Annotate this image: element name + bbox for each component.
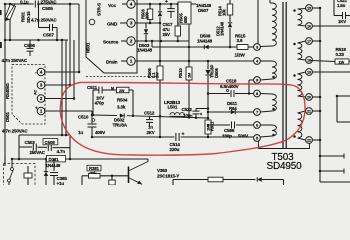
svg-text:R501: R501 xyxy=(21,11,26,22)
svg-text:470p: 470p xyxy=(95,101,105,106)
diode D508 1N4148 xyxy=(204,45,208,49)
transformer left pin 7 xyxy=(254,109,261,116)
wire pin19 output xyxy=(312,71,350,73)
resistor R505 680 xyxy=(178,2,191,24)
bridge pin 2 xyxy=(37,95,45,103)
svg-text:C503: C503 xyxy=(25,140,36,145)
capacitor C518 6.8n 400V xyxy=(226,89,228,91)
switch contacts xyxy=(11,168,14,171)
svg-text:3.3k: 3.3k xyxy=(117,105,126,110)
svg-text:C505: C505 xyxy=(42,6,53,12)
svg-text:RS405G: RS405G xyxy=(5,82,10,99)
transformer right pin 16 xyxy=(306,23,313,30)
left edge cut-off marks xyxy=(0,10,2,48)
diode D385 xyxy=(257,177,262,182)
wire pin9 jog xyxy=(249,79,254,81)
svg-text:C518: C518 xyxy=(226,79,237,84)
svg-text:R64: R64 xyxy=(229,106,237,111)
svg-text:+: + xyxy=(182,132,185,138)
svg-text:22: 22 xyxy=(307,138,311,142)
wire mid-left horizontal xyxy=(5,39,68,41)
capacitor C521 1.5n 1KV xyxy=(333,0,335,16)
wire emitter bottom rail xyxy=(172,180,174,186)
wire output branch 2 xyxy=(320,170,344,172)
svg-text:2W: 2W xyxy=(119,89,125,93)
svg-text:15: 15 xyxy=(307,6,311,10)
capacitor C511 470p 1KV xyxy=(98,87,100,94)
transformer left pin 5 xyxy=(254,135,261,142)
svg-text:680: 680 xyxy=(183,16,188,23)
resistor R518 0.33 1W xyxy=(311,61,335,62)
transformer right pin 15 xyxy=(306,5,313,12)
wire secondary bus xyxy=(319,8,321,182)
svg-text:330p: 330p xyxy=(222,134,232,139)
capacitor C507 4.7n xyxy=(38,4,40,28)
transformer left pin 4 xyxy=(254,58,261,65)
svg-text:C512: C512 xyxy=(144,111,155,116)
capacitor C384 xyxy=(111,176,113,180)
transformer T503 core xyxy=(282,2,284,148)
svg-text:1N4148: 1N4148 xyxy=(197,38,213,43)
bridge pin 3 xyxy=(37,81,45,89)
svg-text:1KV: 1KV xyxy=(338,19,346,24)
svg-text:C507: C507 xyxy=(43,33,54,39)
svg-text:C522: C522 xyxy=(182,107,193,112)
svg-text:AC: AC xyxy=(34,89,38,95)
wire AC feeder 3 xyxy=(69,4,71,85)
varistor R501 SD-15 xyxy=(5,4,16,19)
wire pin16 output xyxy=(312,25,350,27)
capacitor C517 47u 25V xyxy=(170,4,172,9)
diode D512 1N4148 xyxy=(228,23,232,27)
resistor R510 1M xyxy=(188,61,190,67)
svg-text:10k: 10k xyxy=(222,9,227,16)
red hand-drawn annotation loop xyxy=(60,82,305,155)
wire clamp to pin3 line xyxy=(188,41,190,61)
svg-text:4.7n: 4.7n xyxy=(57,149,66,154)
switch dashed box xyxy=(4,164,36,186)
wire pin6 row xyxy=(208,124,230,126)
wire X-cap bottom rail xyxy=(12,158,148,160)
diode D506 TRU3P xyxy=(205,70,210,75)
svg-text:4.7n 250VAC: 4.7n 250VAC xyxy=(2,129,28,134)
svg-text:1N4148: 1N4148 xyxy=(220,21,225,36)
wire pin8 row xyxy=(208,93,230,95)
transistor V383 2SC1815-Y xyxy=(128,167,130,184)
wire Source rail xyxy=(135,40,189,42)
capacitor C503 250VAC xyxy=(19,146,32,148)
wire Vcc rail xyxy=(135,3,196,5)
capacitor C508 4.7n xyxy=(47,144,49,151)
svg-text:0.33: 0.33 xyxy=(336,52,345,57)
wire top AC line xyxy=(5,3,34,5)
transformer right pin 18 xyxy=(306,57,313,64)
transformer right pin 21 xyxy=(306,108,313,115)
wire AC feeder 1 xyxy=(61,40,63,135)
IC dashed boundary below xyxy=(86,76,160,78)
capacitor C365 xyxy=(53,159,55,171)
svg-text:1W: 1W xyxy=(339,60,345,65)
svg-text:C510: C510 xyxy=(78,115,89,120)
wire pin17 stub xyxy=(312,40,320,42)
svg-text:+: + xyxy=(165,0,168,5)
transformer left pin 3 xyxy=(254,44,261,51)
wire output branch 1 xyxy=(320,155,344,157)
primary winding top xyxy=(257,0,259,44)
svg-text:1N4148: 1N4148 xyxy=(137,48,153,53)
relay coil xyxy=(24,173,32,178)
svg-text:+1u: +1u xyxy=(57,181,65,185)
primary winding 4-9 xyxy=(260,60,272,62)
wire pin7 row xyxy=(208,111,254,113)
svg-text:SD4950: SD4950 xyxy=(266,161,302,172)
svg-text:20: 20 xyxy=(307,95,311,99)
svg-text:Vcc: Vcc xyxy=(108,3,117,9)
diode D361 1N4148 xyxy=(45,159,47,172)
wire bridge pin4 to feeder xyxy=(45,71,79,73)
transformer right pin 19 xyxy=(306,69,313,76)
wire pin15 stub xyxy=(312,7,320,9)
secondary winding 17-18 xyxy=(298,41,306,43)
svg-text:400V: 400V xyxy=(95,130,106,135)
svg-text:M: M xyxy=(111,87,114,91)
transformer left pin 6 xyxy=(254,122,261,129)
wire left vertical rail xyxy=(4,4,6,166)
svg-text:D501: D501 xyxy=(5,111,10,122)
svg-text:1n: 1n xyxy=(148,124,153,129)
svg-text:25V: 25V xyxy=(163,32,171,37)
wire snubber top xyxy=(93,89,99,91)
svg-text:100: 100 xyxy=(145,12,150,19)
capacitor C514 220u xyxy=(175,133,177,141)
svg-text:C566: C566 xyxy=(224,128,235,133)
wire pin21 stub xyxy=(312,110,320,112)
diode D502 TRU3A xyxy=(120,113,124,117)
svg-text:TRU3A: TRU3A xyxy=(113,123,128,128)
transformer left pin 8 xyxy=(254,90,261,97)
svg-text:C511: C511 xyxy=(87,85,98,90)
transformer left pin 9 xyxy=(254,77,261,84)
wire into switch xyxy=(4,157,6,164)
svg-text:C508: C508 xyxy=(45,140,56,145)
diode D511 R64 xyxy=(231,110,235,114)
svg-text:2SC1815-Y: 2SC1815-Y xyxy=(157,174,179,179)
IC N501 STR module body xyxy=(86,0,137,73)
svg-text:21: 21 xyxy=(307,109,311,113)
wire pin22 stub xyxy=(312,139,320,141)
resistor R385 xyxy=(208,177,223,182)
svg-text:D507: D507 xyxy=(198,8,209,13)
svg-text:1M: 1M xyxy=(187,72,192,78)
transformer label bracket xyxy=(259,142,310,149)
svg-text:3.6: 3.6 xyxy=(237,38,243,43)
svg-text:STR-S: STR-S xyxy=(97,3,102,16)
transformer right pin 22 xyxy=(306,137,313,144)
wire bridge pin3 to feeder xyxy=(45,84,70,86)
svg-text:1N4148: 1N4148 xyxy=(46,163,61,168)
svg-text:19: 19 xyxy=(307,70,311,74)
resistor R515 3.6 1/2W xyxy=(237,45,248,50)
wire bridge pin1 (+) output xyxy=(45,110,92,112)
secondary winding 19-20 xyxy=(298,72,306,74)
wire snubber right leg xyxy=(132,90,134,116)
wire branch right C-shape xyxy=(337,95,350,97)
resistor R503 100 xyxy=(149,4,151,9)
svg-text:1u: 1u xyxy=(78,130,83,135)
svg-text:4.7n 250VAC: 4.7n 250VAC xyxy=(2,58,28,63)
svg-text:17: 17 xyxy=(307,39,311,43)
wire pin20 stub xyxy=(312,96,320,98)
svg-text:18: 18 xyxy=(307,58,311,62)
svg-text:4.7n 250VAC: 4.7n 250VAC xyxy=(31,18,57,23)
wire GND rail xyxy=(135,22,160,24)
wire base feed xyxy=(81,176,83,185)
winding 6-5 xyxy=(260,124,272,126)
resistor R506 0.1 2W xyxy=(159,41,161,66)
wire B+ rail xyxy=(92,114,117,117)
diode D503 1N4148 xyxy=(145,23,147,29)
capacitor C566 330p 500V xyxy=(231,122,233,129)
svg-text:1/2W: 1/2W xyxy=(235,53,246,58)
bridge pin 4 xyxy=(37,68,45,76)
zener diode D510 xyxy=(159,4,161,11)
svg-text:N501: N501 xyxy=(86,42,91,53)
wire drain clamp vertical xyxy=(207,61,209,69)
svg-text:L501: L501 xyxy=(168,105,178,110)
wire primary ground bus xyxy=(92,136,175,138)
wire bridge pin2 to feeder xyxy=(45,98,74,100)
transformer right pin 17 xyxy=(306,38,313,45)
winding 8-7 xyxy=(260,93,272,96)
svg-text:R510: R510 xyxy=(178,68,183,78)
svg-text:D506: D506 xyxy=(214,68,219,78)
svg-text:R511: R511 xyxy=(210,121,215,131)
svg-text:Drain: Drain xyxy=(106,59,118,65)
wire AC feeder 4 xyxy=(73,40,75,99)
wire AC feeder 5 xyxy=(78,4,80,72)
svg-text:R504: R504 xyxy=(117,98,128,103)
wire AC feeder 2 xyxy=(65,40,67,135)
resistor R514 10k xyxy=(229,0,231,4)
resistor R511 1M xyxy=(205,120,211,134)
svg-text:GND: GND xyxy=(107,22,118,28)
capacitor C505 0.1u 275VAC xyxy=(34,1,36,8)
svg-text:Source: Source xyxy=(103,39,119,45)
resistor R381 22k xyxy=(87,165,101,171)
wire snubber left leg xyxy=(92,90,94,115)
wire X-cap block frame xyxy=(19,134,70,136)
bridge rectifier D501 RS405G dashed outline xyxy=(12,65,45,125)
svg-text:0.1u: 0.1u xyxy=(20,0,29,4)
transformer right pin 20 xyxy=(306,94,313,101)
secondary winding 21-22 xyxy=(298,111,306,113)
wire Drain to transformer pin4 xyxy=(135,60,254,62)
bridge pin 1 xyxy=(37,107,45,115)
svg-text:0.1: 0.1 xyxy=(151,72,156,78)
svg-text:10n: 10n xyxy=(183,113,191,118)
svg-text:1.5n: 1.5n xyxy=(337,3,346,8)
svg-text:2KV: 2KV xyxy=(147,130,155,135)
svg-text:275VAC: 275VAC xyxy=(41,0,58,4)
svg-text:220u: 220u xyxy=(170,147,180,152)
secondary winding 15-16 xyxy=(298,8,306,11)
svg-text:250VAC: 250VAC xyxy=(30,150,46,155)
svg-text:16: 16 xyxy=(307,24,311,28)
wire output branch bottom xyxy=(320,181,350,183)
svg-text:V363: V363 xyxy=(157,168,168,173)
svg-text:500V: 500V xyxy=(238,134,249,139)
